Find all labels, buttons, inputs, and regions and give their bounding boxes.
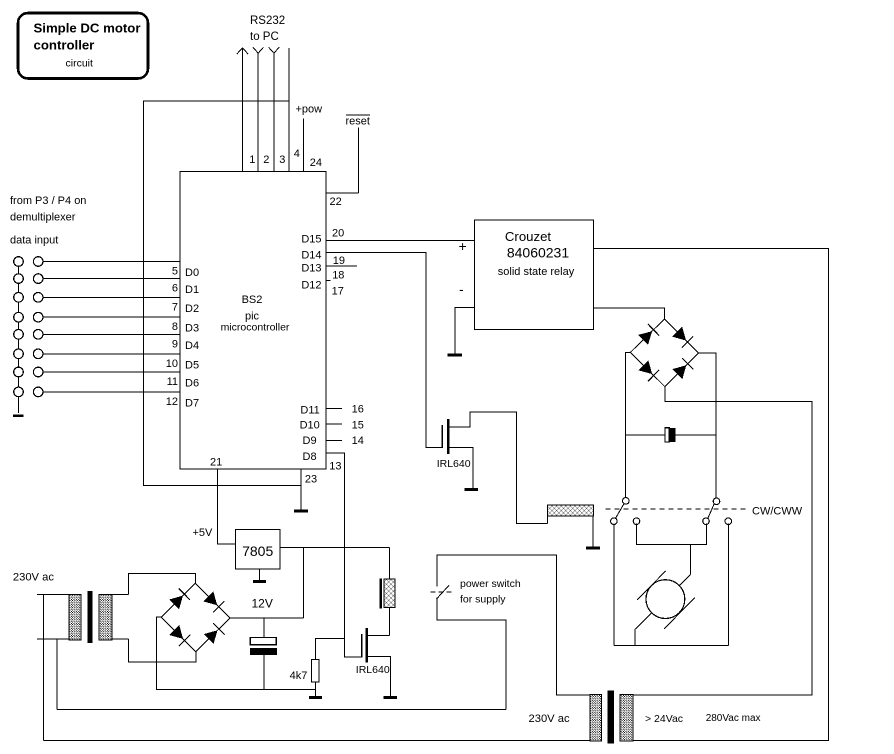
svg-text:D3: D3: [185, 323, 199, 335]
svg-text:+pow: +pow: [296, 104, 323, 116]
wire T1 primary bottom stub: [37, 638, 69, 640]
regulator U2 7805: [235, 530, 280, 569]
wire motor terminal top-right: [679, 575, 690, 586]
diode BR2 top-left: [638, 331, 652, 345]
svg-text:18: 18: [332, 270, 344, 282]
svg-text:2: 2: [263, 154, 269, 166]
svg-text:power switch: power switch: [460, 578, 521, 590]
connector circle row3 left: [14, 293, 24, 303]
ground Q2 source: [384, 696, 397, 699]
wire pin4 branch to +5V rail: [144, 101, 301, 486]
connector circle row1 right: [33, 257, 43, 267]
wire motor feed from U: [689, 544, 691, 574]
svg-text:demultiplexer: demultiplexer: [10, 212, 76, 224]
pin 15 stub: [326, 423, 342, 425]
switch SW-B throw circle left: [703, 518, 710, 525]
svg-text:9: 9: [172, 338, 178, 350]
connector circle row7 right: [33, 367, 43, 377]
connector circle row2 left: [14, 274, 24, 284]
svg-text:23: 23: [305, 474, 317, 486]
wire BR1 ac-bottom: [129, 639, 196, 662]
svg-text:D7: D7: [185, 397, 199, 409]
motor M1 circle: [646, 580, 685, 619]
ground relay minus: [448, 354, 462, 357]
wire gate node to R1: [316, 639, 345, 660]
svg-text:solid state relay: solid state relay: [498, 266, 575, 278]
svg-text:D11: D11: [300, 404, 319, 416]
wire RS232 pin1 (up arrow): [237, 48, 248, 172]
wire RS232 pin2 (Y arrow): [253, 47, 264, 171]
wire +pow to pin 24: [302, 118, 304, 171]
svg-text:19: 19: [333, 255, 345, 267]
svg-text:reset: reset: [346, 116, 370, 128]
wire D8 pin13 to MOSFET Q2 gate: [326, 453, 362, 657]
svg-text:230V ac: 230V ac: [13, 572, 54, 584]
switch SW-B pole circle: [713, 498, 720, 505]
wire BR2 bottom to transformer T2: [633, 387, 812, 695]
wire Q2 source: [367, 656, 391, 696]
connector circle row2 right: [33, 274, 43, 284]
wire D15 to relay +: [326, 239, 475, 241]
svg-text:16: 16: [352, 403, 364, 415]
svg-text:D10: D10: [300, 420, 320, 432]
ground 7805: [259, 569, 261, 582]
pin 18 stub: [326, 279, 331, 281]
svg-text:BS2: BS2: [242, 294, 263, 306]
ground R1: [309, 696, 322, 699]
svg-text:24: 24: [310, 157, 322, 169]
capacitor C1 lead top: [263, 618, 265, 638]
transistor Q2 gate bar: [361, 634, 363, 658]
transistor Q1 body bar: [447, 419, 450, 454]
connector circle row1 left: [14, 257, 24, 267]
wire K1 right lead: [592, 516, 594, 546]
pin 14 stub: [326, 439, 342, 441]
bridge BR1 outline: [161, 583, 230, 651]
wire data bit 5 to pin 10: [43, 353, 180, 355]
pin 16 stub: [326, 408, 342, 410]
wire T1 secondary bottom: [112, 638, 129, 640]
motor M1 brush lower-right: [664, 598, 695, 629]
svg-text:17: 17: [332, 285, 344, 297]
switch SW-B blade: [708, 503, 715, 518]
connector circle row5 left: [14, 330, 24, 340]
wire T1 primary top rail down: [43, 594, 45, 740]
coil K2 hatched body: [384, 579, 395, 608]
wire BR1 ac-top: [129, 573, 196, 594]
wire data bit 7 to pin 12: [43, 391, 180, 393]
svg-text:controller: controller: [34, 38, 95, 53]
svg-text:Simple DC motor: Simple DC motor: [34, 21, 141, 36]
power switch wiring box upper: [437, 555, 590, 695]
ground Q1 source: [465, 488, 479, 491]
connector circle row3 right: [33, 293, 43, 303]
switch SW-A throw circle right: [633, 518, 640, 525]
ground pin 23: [300, 469, 302, 511]
svg-text:+5V: +5V: [193, 527, 214, 539]
diode BR1 bottom-right: [204, 630, 218, 644]
connector circle row5 right: [33, 330, 43, 340]
svg-text:D0: D0: [185, 267, 199, 279]
wire D14 to MOSFET Q1 gate: [326, 252, 442, 447]
transformer T1 secondary winding: [99, 594, 112, 640]
svg-text:-: -: [459, 281, 464, 297]
svg-text:7: 7: [172, 301, 178, 313]
wire data bit 3 to pin 8: [43, 316, 180, 318]
svg-text:8: 8: [172, 321, 178, 333]
pin 19 stub: [326, 265, 357, 267]
svg-text:230V ac: 230V ac: [529, 713, 570, 725]
wire Q2 drain: [367, 635, 390, 637]
svg-text:D5: D5: [185, 359, 199, 371]
pin 22 stub: [326, 192, 359, 194]
diode BR1 top-right: [204, 592, 218, 606]
resistor R1 4k7: [312, 660, 319, 682]
diode BR2 bottom-left: [638, 360, 652, 374]
svg-text:D8: D8: [303, 451, 317, 463]
svg-text:IRL640: IRL640: [356, 664, 390, 676]
transistor Q1 gate bar: [441, 425, 443, 448]
wire 7805 output down to 12V rail: [303, 548, 305, 618]
wire K2 to Q2 drain: [389, 608, 391, 636]
wire RS232 pin4: [288, 48, 290, 171]
svg-text:> 24Vac: > 24Vac: [645, 713, 683, 725]
svg-text:10: 10: [166, 358, 178, 370]
wire data bit 4 to pin 9: [43, 333, 180, 335]
wire motor inner U: [636, 524, 706, 545]
wire Q1 source: [448, 447, 473, 487]
connector circle row6 right: [33, 349, 43, 359]
svg-text:microcontroller: microcontroller: [221, 322, 290, 334]
svg-text:11: 11: [167, 376, 178, 388]
transistor Q2 body bar: [365, 628, 368, 662]
coil K2 bar: [379, 579, 382, 609]
svg-text:12: 12: [166, 396, 178, 408]
wire motor bottom bus: [614, 645, 728, 647]
wire data bit 1 to pin 6: [43, 278, 180, 280]
label RS232 to PC: [250, 15, 285, 43]
svg-text:D6: D6: [185, 378, 199, 390]
wire K1 bottom-left lead: [547, 516, 549, 524]
bridge BR2 outline: [630, 319, 698, 387]
svg-text:280Vac max: 280Vac max: [706, 713, 761, 724]
svg-text:D14: D14: [301, 249, 321, 261]
connector circle row8 left: [14, 387, 24, 397]
microcontroller U1 BS2: [180, 171, 326, 469]
transformer T2 core: [608, 691, 614, 744]
capacitor C1 lead bottom: [263, 655, 265, 689]
svg-text:for supply: for supply: [460, 594, 506, 606]
wire ground rail 12V side: [156, 688, 316, 690]
wire R1 bottom: [315, 682, 317, 696]
wire BR2 minus rail: [626, 352, 631, 498]
svg-text:D9: D9: [303, 435, 317, 447]
motor M1 brush upper-left: [637, 571, 666, 600]
wire motor terminal bottom-left: [635, 613, 652, 646]
wire 12V rail: [230, 617, 304, 619]
transformer T2 primary winding: [590, 695, 601, 741]
svg-text:D12: D12: [301, 279, 321, 291]
svg-text:RS232: RS232: [250, 15, 285, 27]
wire T1 primary top stub: [37, 593, 69, 595]
ground data-input chain: [13, 414, 23, 417]
wire data-input common chain: [18, 262, 20, 414]
svg-text:13: 13: [329, 461, 341, 473]
svg-text:1: 1: [249, 154, 255, 166]
wire relay output top to transformer T2: [594, 249, 829, 741]
connector circle row6 left: [14, 349, 24, 359]
power switch S1 blade: [437, 585, 450, 599]
svg-text:12V: 12V: [252, 597, 273, 611]
diode BR2 bottom-right: [673, 365, 687, 379]
svg-text:21: 21: [210, 457, 222, 469]
connector circle row7 left: [14, 367, 24, 377]
diode BR2 top-right: [672, 327, 686, 341]
wire Q1 drain to relay coil K1: [448, 412, 547, 524]
wire BR2 plus rail: [699, 353, 717, 498]
wire 7805 output down to K2: [389, 548, 391, 580]
svg-text:84060231: 84060231: [507, 245, 570, 261]
wire 7805 output: [280, 547, 390, 549]
connector circle row8 right: [33, 387, 43, 397]
connector circle row4 right: [33, 312, 43, 322]
svg-text:+: +: [459, 238, 467, 254]
capacitor C1: [250, 637, 277, 655]
power switch wiring box lower: [437, 598, 506, 710]
wire pin21 to 7805 input: [218, 469, 236, 544]
svg-text:4: 4: [294, 148, 300, 160]
svg-text:3: 3: [279, 154, 285, 166]
svg-text:22: 22: [330, 196, 342, 208]
svg-text:20: 20: [332, 227, 344, 239]
wire reset to pin 22: [358, 127, 360, 193]
svg-text:circuit: circuit: [66, 58, 94, 70]
switch SW-A blade: [616, 503, 625, 518]
capacitor C2 wire right: [676, 434, 716, 436]
svg-text:data input: data input: [10, 235, 58, 247]
svg-text:D2: D2: [185, 303, 199, 315]
svg-text:D13: D13: [301, 262, 321, 274]
transformer T2 secondary winding: [620, 695, 633, 741]
power switch S1 dashed: [431, 591, 455, 593]
svg-text:7805: 7805: [242, 543, 273, 559]
switch SW-A pole circle: [623, 498, 630, 505]
switch SW-A throw circle left: [611, 518, 618, 525]
svg-text:Crouzet: Crouzet: [505, 229, 552, 244]
wire 230V mid wire to power switch: [57, 708, 506, 710]
relay coil K1 hatched body: [548, 505, 594, 516]
wire relay minus: [455, 307, 475, 353]
wire data bit 0 to pin 5: [43, 261, 180, 263]
ground K1: [586, 546, 600, 549]
svg-text:D4: D4: [185, 340, 199, 352]
wire motor outer left rail: [613, 524, 615, 646]
wire data bit 2 to pin 7: [43, 296, 180, 298]
svg-text:D1: D1: [185, 284, 199, 296]
connector circle row4 left: [14, 312, 24, 322]
switch SW-B throw circle right: [725, 518, 732, 525]
svg-text:15: 15: [352, 419, 364, 431]
svg-text:4k7: 4k7: [290, 670, 308, 682]
wire 230V bottom long wire: [44, 740, 596, 742]
svg-text:CW/CWW: CW/CWW: [752, 506, 803, 518]
diode BR1 bottom-left: [169, 625, 183, 639]
svg-text:to PC: to PC: [250, 31, 279, 43]
svg-text:from P3 / P4 on: from P3 / P4 on: [10, 195, 86, 207]
solid state relay U3: [475, 220, 594, 330]
svg-text:IRL640: IRL640: [437, 458, 471, 470]
wire data bit 6 to pin 11: [43, 371, 180, 373]
dashed link CW/CWW: [606, 508, 748, 510]
diode BR1 top-left: [169, 596, 183, 610]
label reset (with overline): [346, 115, 370, 127]
wire RS232 pin3 (Y arrow): [269, 47, 280, 171]
wire T1 primary bottom rail down: [56, 639, 58, 710]
svg-text:D15: D15: [301, 233, 321, 245]
wire motor outer right rail: [727, 524, 729, 646]
wire BR1 minus to ground rail: [157, 617, 162, 689]
svg-text:14: 14: [352, 435, 364, 447]
svg-text:5: 5: [172, 266, 178, 278]
wire T1 secondary top: [112, 593, 129, 595]
transformer T1 primary winding: [69, 594, 81, 640]
title box: [18, 13, 148, 79]
capacitor C2 wire left: [626, 434, 666, 436]
transformer T1 core: [87, 591, 92, 643]
capacitor C2: [665, 428, 676, 442]
wire relay output bottom to BR2: [594, 308, 665, 319]
svg-text:6: 6: [172, 283, 178, 295]
